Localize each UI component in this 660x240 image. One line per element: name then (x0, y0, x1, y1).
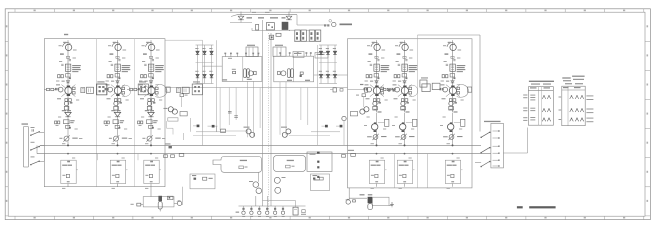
main bus wire upper (40, 144, 481, 146)
capacitor C352 (145, 174, 152, 177)
capacitor C211 (118, 59, 120, 60)
output right wires (349, 188, 392, 206)
diode D93 (322, 125, 328, 128)
wire stage 2 to rail (118, 170, 128, 187)
current label 0.38mA (340, 24, 353, 26)
driver transistor Q605 (448, 122, 454, 132)
stage 6 output network text (447, 165, 457, 166)
transistor Q404 (373, 101, 381, 105)
sheet number text (517, 206, 523, 208)
wire vertical x=202 (165, 40, 203, 145)
bus drop wires left (98, 154, 139, 161)
wire stage 5 lower vertical (404, 113, 406, 146)
resistor R341 (148, 99, 151, 102)
diode D94 (336, 125, 342, 128)
resistor R633 (457, 87, 460, 89)
wire stage 6 vertical (452, 40, 454, 112)
bias module U32 (147, 106, 152, 110)
wire stage 1 to rail (68, 170, 78, 187)
sheet title text (529, 206, 555, 208)
bias module U61 (450, 64, 455, 71)
resistor R141 (65, 99, 68, 102)
coupling capacitor C512 (398, 64, 400, 65)
driver transistor Q203 (108, 87, 113, 92)
middle bus wire y=87.5 (165, 87, 348, 89)
resistor R534 (409, 92, 412, 94)
power module box M3 (293, 52, 304, 58)
regulator box U13 (64, 120, 75, 124)
transistor Q204 (114, 101, 122, 105)
resistor R433 (381, 87, 384, 89)
driver transformer box T1 (222, 57, 262, 82)
bottom center box right (311, 174, 330, 191)
diode D13 upper (210, 45, 213, 74)
terminal lugs 1-6 (242, 206, 285, 215)
coupling capacitor C161 (81, 88, 85, 93)
stage 2 output network text (112, 165, 122, 166)
right channel top step wire (418, 35, 481, 132)
film capacitor C42 (368, 197, 373, 203)
wire bus to table (503, 128, 527, 154)
wire vertical x=216.7 (216, 40, 218, 132)
resistor R222 (111, 75, 113, 78)
resistor R625 (442, 88, 444, 90)
psu top rail wire (231, 15, 297, 17)
bias wiring left middle (168, 118, 247, 140)
resistor R622 (446, 75, 448, 78)
resistor R634 (457, 92, 460, 94)
stage 5 Q label (397, 53, 401, 54)
terminal feed wires (263, 201, 296, 208)
resistor R521 (394, 75, 396, 78)
output left transistor Q37 (177, 201, 182, 206)
resistor R621 (442, 75, 444, 78)
resistor R353 (138, 121, 140, 124)
resistor R541 (401, 99, 404, 102)
diode D32 (148, 112, 154, 116)
output network box stage 6 (445, 160, 460, 183)
transistor Q104 (64, 101, 72, 105)
switch table B (562, 86, 585, 126)
bias driver box left (180, 112, 187, 116)
input capacitor C31 (32, 129, 33, 131)
capacitor C22 (270, 35, 274, 39)
speaker switch S2a (481, 132, 491, 138)
transformer T2 secondary drop wires (280, 82, 286, 135)
power module box M2 (273, 45, 286, 57)
stage 4 value table text (381, 65, 390, 72)
diode D19 upper (333, 45, 336, 74)
capacitor C452 (371, 174, 378, 177)
wire stage 5 base feed (381, 89, 392, 91)
diode D18 upper (326, 45, 329, 74)
bias module U52 (401, 106, 406, 110)
resistor R131 (47, 88, 50, 90)
resistor R155 (66, 125, 71, 128)
capacitor C311 (152, 59, 154, 60)
resistor R132 (51, 88, 54, 90)
transistor Q604 (449, 101, 457, 105)
wire stage 4 lower vertical (376, 113, 378, 146)
terminal strip rail wire (239, 205, 306, 207)
resistor R656 (451, 181, 454, 182)
transformer feed wire left (203, 65, 223, 67)
driver transistor Q405 (372, 122, 378, 132)
diode D17 upper (319, 45, 322, 74)
stage 2 Q label (110, 53, 114, 54)
driver transistor Q505 (400, 122, 406, 132)
driver transistor Q603 (443, 87, 448, 92)
resistor R354 (141, 121, 143, 124)
stage 3 Q label (143, 53, 147, 54)
wire stage 4 to rail (377, 170, 387, 187)
interstage module U25 (97, 81, 107, 94)
resistor R255 (115, 125, 120, 128)
driver transistor Q503 (395, 87, 400, 92)
interstage module U75 (192, 81, 202, 94)
relay contact box K1 (295, 30, 300, 41)
resistor R45 (131, 203, 141, 206)
resistor R425 (366, 88, 368, 90)
resistor R47 (167, 196, 173, 199)
coupling capacitor C612 (446, 64, 448, 65)
output coupling loop stage 5 small (409, 85, 418, 96)
stage 5 value table text (409, 65, 418, 72)
speaker switch inner contacts (493, 130, 500, 166)
thermistor pair TH1 (244, 127, 255, 138)
protection transistor Q32 (256, 188, 262, 194)
bias module U53 (406, 119, 417, 126)
resistor R642 (453, 99, 456, 102)
transformer feed wire right (314, 74, 348, 76)
resistor R324 (138, 88, 140, 90)
capacitor C552 (399, 174, 406, 177)
power transistor Q202 (111, 85, 125, 97)
output choke box left (143, 197, 174, 207)
trimmer VR11 (59, 135, 82, 141)
diode D21 (111, 81, 119, 83)
stage 1 Q label (60, 53, 64, 54)
wire stage 6 to rail (453, 170, 463, 187)
table B left pin labels (559, 97, 562, 121)
left of right channel feed parts (330, 88, 356, 92)
input transistor Q201 (112, 42, 121, 51)
bias network box far right (307, 152, 332, 172)
right interstage small resistors (388, 89, 395, 92)
right interstage module U64 (420, 77, 440, 91)
switch table A (528, 87, 553, 126)
selector switch S1c (30, 154, 44, 166)
right channel divider wire (417, 35, 419, 188)
stage 3 value table text (155, 65, 164, 72)
thermistor pair TH2 (281, 127, 291, 138)
bias module U41 (374, 64, 379, 71)
resistor R423 (374, 74, 379, 80)
bias module U43 (378, 119, 389, 126)
bias module U63 (454, 119, 465, 126)
trimmer VR21 (109, 135, 132, 141)
fuse holder box bottom (293, 207, 298, 215)
bus junction dots (67, 144, 454, 154)
stage 1 lower labels (62, 110, 71, 111)
driver transistor Q103 (58, 87, 63, 92)
coupling capacitor C412 (370, 64, 372, 65)
resistor R253 (104, 121, 106, 124)
transistor Q504 (401, 101, 409, 105)
bias module U62 (449, 106, 454, 110)
bias module U51 (402, 64, 407, 71)
scattered reference designator labels (56, 45, 464, 189)
input transistor Q601 (447, 42, 456, 51)
trimmer VR31 (142, 135, 165, 141)
table B right labels (586, 95, 593, 122)
driver transistor Q403 (367, 87, 372, 92)
stage interlink capacitor marks (66, 56, 454, 58)
diode D31 (145, 81, 153, 83)
wire stage 3 base feed (127, 89, 138, 91)
border zone ticks top (15, 9, 660, 12)
diode D51 (398, 81, 406, 83)
capacitor C21 (266, 23, 274, 30)
resistor R256 (116, 181, 119, 182)
power transistor Q302 (144, 85, 158, 97)
input transistor Q501 (399, 42, 408, 51)
resistor R28 (276, 33, 281, 36)
stage 4 output network text (371, 165, 381, 166)
border zone ticks bottom (15, 216, 660, 219)
stage 5 output network text (399, 165, 409, 166)
resistor R524 (392, 88, 394, 90)
capacitor C611 (453, 59, 455, 60)
resistor R225 (107, 88, 109, 90)
thermal breaker (301, 210, 306, 215)
resistor R421 (366, 75, 368, 78)
transformer T2 windings (288, 69, 294, 78)
stage 1 mid labels (56, 84, 61, 99)
bias driver box right (350, 112, 357, 116)
switch table B contacts row1 (570, 95, 584, 99)
resistor R334 (156, 92, 159, 94)
transformer T1 windings (244, 69, 250, 78)
transformer T1 secondary drop wires (248, 81, 254, 137)
diode D13 lower (209, 48, 213, 84)
wire stage 3 lower vertical (150, 117, 152, 146)
bias driver resistor right (356, 94, 366, 97)
relay RY1 (282, 22, 289, 30)
output network box stage 1 (61, 160, 76, 183)
transistor Q8 in T2 box (278, 71, 286, 76)
resistor R123 (66, 74, 71, 80)
diode D11 upper (196, 45, 199, 74)
psu right branch wire (297, 15, 329, 25)
T2 box top pins (279, 52, 311, 56)
left channel enclosure box (44, 39, 165, 187)
resistor R355 (149, 125, 154, 128)
diode D18 lower (326, 48, 330, 84)
regulator box U23 (113, 120, 124, 124)
bus left end wire (36, 145, 38, 153)
output network box stage 5 (397, 160, 412, 183)
stage 1 value table text (72, 65, 81, 72)
input transistor Q401 (371, 42, 380, 51)
resistor R323 (149, 74, 154, 80)
resistor R234 (122, 92, 125, 94)
diode D11 (62, 81, 70, 83)
diode D12 (65, 112, 71, 116)
capacitor C111 (69, 59, 71, 60)
output choke box right (373, 197, 390, 205)
wire stage 2 vertical (117, 40, 119, 112)
output coupling loop stage 3 (155, 84, 170, 97)
resistor R333 (156, 87, 159, 89)
resistor R233 (122, 87, 125, 89)
resistor R242 (118, 99, 121, 102)
resistor R325 (140, 88, 142, 90)
resistor R125 (57, 88, 59, 90)
resistor R122 (61, 75, 63, 78)
resistor R441 (373, 99, 376, 102)
middle drop wires left (220, 88, 260, 131)
wire stage 5 to rail (405, 170, 415, 187)
resistor R641 (449, 99, 452, 102)
rail tap parts left (164, 121, 184, 157)
resistor R254 (107, 121, 109, 124)
wire vertical x=317.5 (317, 45, 319, 145)
coupling box U74 (182, 87, 189, 93)
resistor R356 (150, 181, 153, 182)
feedback right components (286, 160, 295, 168)
switch table A header text (529, 81, 554, 85)
resistor R422 (370, 75, 372, 78)
resistor R124 (55, 88, 57, 90)
centre drop wires to terminals (256, 172, 268, 206)
electrolytic capacitor C45 (368, 204, 373, 210)
interstage module U35 (138, 81, 148, 94)
border zone ticks left (5, 25, 8, 216)
wire stage 1 base feed (44, 89, 55, 91)
protection transistor Q31 (249, 181, 259, 187)
stage 6 lower labels (450, 109, 458, 113)
output coupling loop stage 6 (457, 84, 472, 97)
resistor R624 (440, 88, 442, 90)
power transistor Q102 (61, 85, 75, 97)
regulator box U33 (147, 120, 158, 124)
power module box M4 (315, 53, 328, 59)
output right labels (360, 194, 373, 195)
coupling box U14 (87, 87, 94, 93)
interstage module U15 (97, 81, 107, 94)
psu lower wires (230, 20, 321, 42)
diode array D17 rails (319, 45, 337, 84)
transistor Q304 (147, 101, 155, 105)
wire stage 5 vertical (404, 40, 406, 112)
power module box M1 (246, 45, 258, 57)
stage 4 mid labels (365, 84, 370, 99)
wire stage 1 vertical (67, 40, 69, 112)
resistor R542 (405, 99, 408, 102)
relay contact box K2 (301, 30, 306, 41)
center dashed reference line (268, 33, 270, 213)
power transistor Q502 (398, 85, 412, 97)
trimmer VR41 (367, 134, 386, 140)
resistor R321 (141, 75, 143, 78)
coupling capacitor C212 (111, 64, 113, 65)
fuse F1 (256, 25, 259, 31)
resistor R121 (58, 75, 60, 78)
stage 4 Q label (369, 53, 373, 54)
capacitor C91 (221, 129, 226, 132)
bus drop wires right (395, 154, 428, 188)
ground symbol right (390, 202, 394, 207)
resistor R331 (130, 88, 133, 90)
driver transistor Q303 (141, 87, 146, 92)
switch table B header text (562, 76, 584, 85)
rectifier diode D21 (238, 12, 244, 20)
resistor R623 (450, 74, 455, 80)
resistor R46 (353, 200, 356, 202)
output network box stage 2 (110, 160, 125, 183)
diode D41 (370, 81, 378, 83)
resistor R533 (409, 87, 412, 89)
switch table A contacts row1 (530, 95, 551, 101)
right channel enclosure box (348, 39, 473, 188)
resistor R223 (115, 74, 120, 80)
resistor R153 (55, 121, 57, 124)
wire stage 3 vertical (150, 40, 152, 112)
main bus wire lower (37, 153, 491, 155)
output network box stage 3 (144, 160, 159, 183)
wire stage 4 vertical (376, 40, 378, 112)
feedback left components (239, 160, 248, 169)
stage 4 lower labels (374, 109, 382, 113)
pilot lamp PL1 (329, 20, 336, 27)
left channel divider wires (97, 39, 135, 187)
power transistor Q602 (446, 85, 460, 97)
speaker switch S2c (475, 161, 490, 167)
resistor R224 (105, 88, 107, 90)
diode D92 (208, 125, 218, 128)
T2 box labels (287, 80, 310, 81)
diode D19 lower (333, 48, 337, 84)
input transistor Q301 (146, 42, 155, 51)
resistor R456 (375, 181, 378, 182)
feedback network box right (274, 156, 306, 172)
table A side labels (523, 95, 527, 121)
resistor R434 (381, 92, 384, 94)
resistor R523 (402, 74, 407, 80)
bias wiring right middle (289, 121, 344, 146)
stage 3 lower labels (145, 110, 154, 111)
switch table B contacts row2 (570, 108, 584, 112)
driver transformer box T2 (274, 56, 314, 82)
resistor R322 (144, 75, 146, 78)
resistor R221 (107, 75, 109, 78)
resistor R442 (377, 99, 380, 102)
diode D91 (193, 125, 199, 128)
diode array D11 rails (196, 45, 214, 84)
stage 6 mid labels (441, 84, 446, 99)
resistor R532 (387, 88, 390, 90)
output right transistor Q38 (345, 199, 350, 204)
resistor R142 (69, 99, 72, 102)
bottom center box left (190, 174, 215, 189)
switch table B contacts row3 (570, 118, 584, 122)
stage 3 output network text (145, 165, 155, 166)
resistor R134 (73, 92, 76, 94)
resistor R156 (67, 181, 70, 182)
bias module U42 (373, 106, 378, 110)
bias module U22 (114, 106, 119, 110)
